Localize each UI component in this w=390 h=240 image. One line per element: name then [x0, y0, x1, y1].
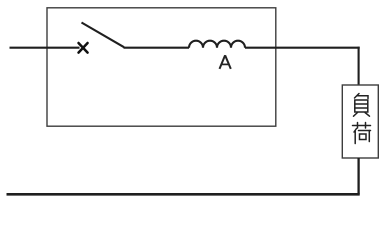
label A [220, 55, 231, 69]
wire: bottom return lead [7, 193, 360, 196]
wire: inductor to right corner [245, 47, 360, 49]
load box U1 [342, 85, 378, 158]
enclosure box (dashed-free outline around switch and reactor) [47, 8, 276, 126]
node X (contact cross mark) [79, 43, 88, 53]
switch S1 (open blade) [82, 23, 125, 48]
wire: right vertical down to load [358, 47, 360, 85]
label 負 (kanji "fu") drawn as strokes [354, 94, 370, 117]
wire: switch to inductor [124, 47, 190, 49]
label 荷 (kanji "ka") drawn as strokes [353, 123, 371, 144]
inductor A (4-hump coil) [189, 41, 245, 48]
wire: load to bottom corner [357, 158, 359, 194]
wire: left input lead [10, 47, 80, 49]
